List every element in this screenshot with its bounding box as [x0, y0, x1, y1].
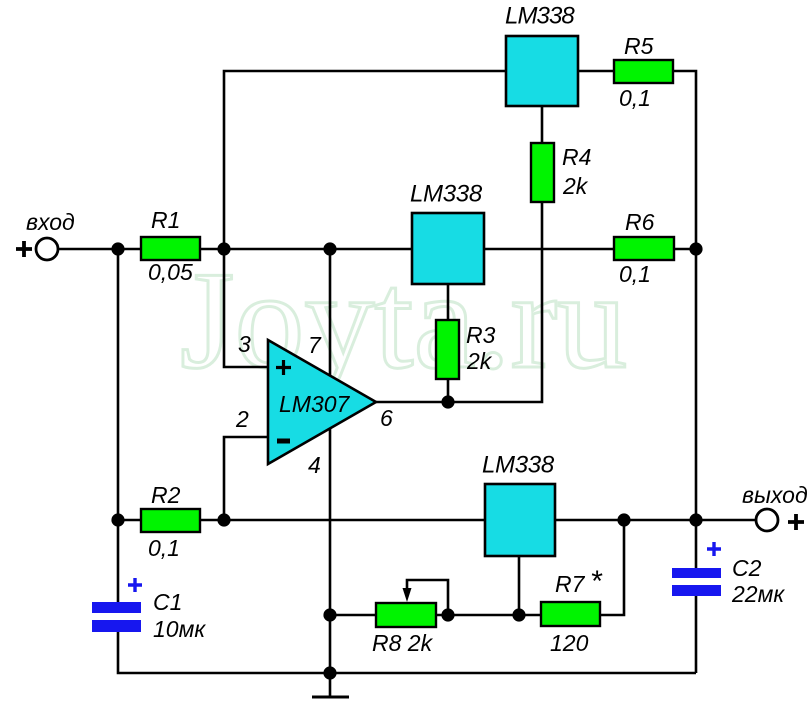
potentiometer R8: [372, 580, 448, 656]
resistor R2: [141, 482, 200, 561]
svg-text:0,1: 0,1: [619, 261, 651, 287]
wire left rail down from node A to C1: [117, 249, 120, 602]
svg-text:*: *: [590, 565, 603, 598]
svg-text:120: 120: [550, 630, 589, 656]
resistor R3: [436, 320, 496, 379]
svg-text:0,1: 0,1: [148, 535, 180, 561]
svg-text:10мк: 10мк: [153, 616, 206, 642]
svg-text:R2: R2: [151, 482, 181, 508]
svg-text:LM307: LM307: [279, 391, 351, 417]
svg-text:R3: R3: [466, 322, 496, 348]
capacitor C2: [672, 542, 785, 607]
svg-text:вход: вход: [26, 209, 75, 235]
wire R5 to right rail corner, down to node B and node OUT: [673, 71, 696, 520]
node ground junction: [323, 666, 336, 679]
svg-text:Joyta.ru: Joyta.ru: [180, 243, 627, 398]
wire U2 out to R5: [578, 70, 614, 73]
svg-text:C1: C1: [153, 589, 182, 615]
wire R2 to U4 left pin: [200, 519, 485, 522]
svg-text:R1: R1: [151, 207, 180, 233]
svg-text:7: 7: [308, 332, 322, 358]
node U4 adj junction: [512, 608, 525, 621]
resistor R1: [141, 207, 200, 285]
svg-text:6: 6: [380, 405, 393, 431]
op-amp U1 LM307: [268, 340, 376, 464]
wire top rail from node A to U2: [224, 71, 506, 249]
wire input row: terminal to R1: [56, 248, 141, 251]
svg-text:3: 3: [238, 331, 251, 357]
wire C2 bottom to ground rail: [695, 596, 698, 673]
node R8 wiper junction: [441, 608, 454, 621]
svg-text:C2: C2: [732, 555, 762, 581]
svg-text:R6: R6: [625, 209, 655, 235]
wire R6 to right rail: [674, 248, 696, 251]
wire R8 right to R7: [436, 614, 541, 617]
wire U2 bottom pin to R4: [541, 106, 544, 143]
svg-text:R5: R5: [624, 33, 654, 59]
svg-text:R7: R7: [555, 571, 586, 597]
node R2 right junction: [217, 513, 230, 526]
svg-text:LM338: LM338: [505, 3, 575, 30]
resistor R4: [531, 143, 591, 202]
svg-text:4: 4: [308, 452, 321, 478]
svg-text:R8 2k: R8 2k: [372, 630, 434, 656]
svg-text:2: 2: [235, 406, 249, 432]
wire U4 out row to output terminal: [555, 519, 756, 522]
resistor R6: [614, 209, 674, 287]
wire C1 bottom to ground rail: [118, 632, 696, 673]
wire C2 rail top: [695, 520, 698, 568]
wire R1 to U3 left pin: [200, 248, 412, 251]
wire bottom row R8 R7: [330, 614, 376, 617]
node A2 junction: [217, 242, 230, 255]
wire U3 bottom pin to R3: [447, 284, 450, 320]
resistor R5: [614, 33, 673, 111]
regulator U3 LM338 middle: [410, 181, 484, 285]
svg-text:0,1: 0,1: [619, 85, 651, 111]
node R8 left junction: [323, 608, 336, 621]
wire R2 row: [118, 519, 141, 522]
input terminal: [16, 209, 75, 260]
node A3 junction: [323, 242, 336, 255]
svg-text:LM338: LM338: [410, 181, 483, 208]
wire U3 right pin to R6: [484, 248, 614, 251]
svg-text:LM338: LM338: [482, 452, 555, 479]
svg-text:выход: выход: [742, 482, 808, 508]
regulator U4 LM338 bottom: [482, 452, 555, 557]
svg-text:2k: 2k: [562, 173, 589, 199]
resistor R7: [541, 565, 603, 656]
output terminal: [742, 482, 808, 531]
svg-text:R4: R4: [562, 144, 591, 170]
wire op-amp pin 2 to R2 node: [224, 437, 268, 520]
ground: [312, 673, 349, 697]
wire pin7/pin4 vertical rail: [329, 249, 332, 673]
node A junction: [111, 242, 124, 255]
node R2 left junction: [111, 513, 124, 526]
wire U4 bottom pin: [518, 556, 521, 615]
wire R7 right riser to out row: [600, 520, 624, 615]
wire op-amp pin 6 node to R4 riser: [376, 202, 542, 402]
wire R3 bottom to pin6 node: [447, 379, 450, 402]
svg-text:2k: 2k: [466, 348, 493, 374]
node pin6 junction: [441, 395, 454, 408]
node out rail junction: [689, 513, 702, 526]
node B junction: [689, 242, 702, 255]
svg-text:0,05: 0,05: [148, 259, 193, 285]
wire node A2 down to op-amp pin 3: [224, 249, 268, 367]
node out riser junction: [617, 513, 630, 526]
capacitor C1: [92, 578, 206, 642]
regulator U2 LM338 top: [505, 3, 578, 107]
svg-text:22мк: 22мк: [731, 581, 785, 607]
